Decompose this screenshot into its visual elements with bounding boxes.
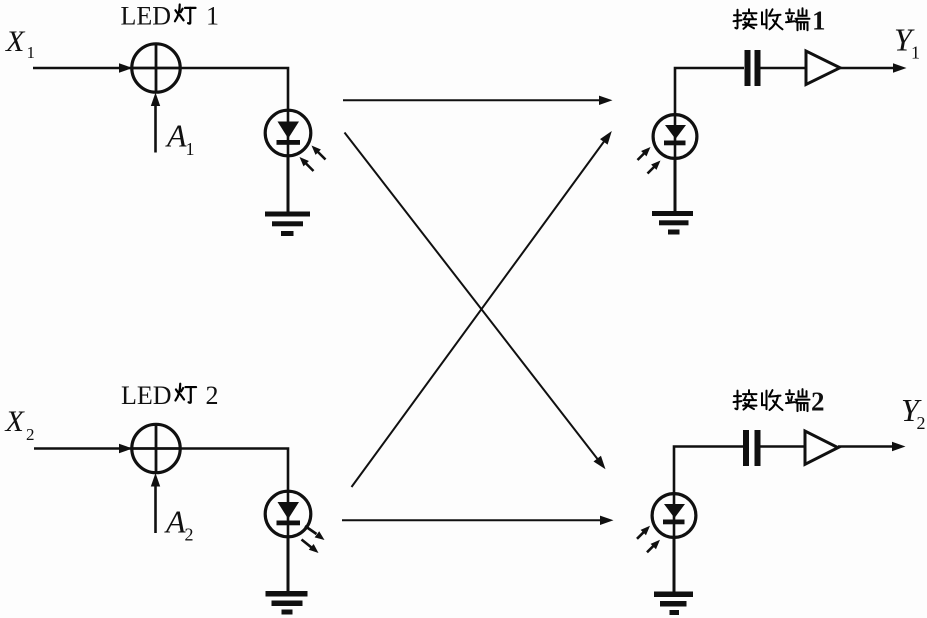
- label A1: [165, 118, 195, 160]
- wire adder2 to LED2: [180, 449, 289, 492]
- label LED灯2: [121, 381, 219, 410]
- svg-text:LED: LED: [121, 2, 172, 31]
- label 接收端2: [734, 386, 825, 416]
- svg-text:X: X: [5, 405, 26, 438]
- LED D1 light arrows: [297, 143, 326, 171]
- node Y2: [901, 392, 926, 433]
- node Y1: [894, 22, 920, 63]
- photodiode PD1 light arrows: [638, 144, 664, 173]
- capacitor C1: [745, 50, 761, 86]
- ground GND4: [654, 592, 693, 616]
- photodiode PD1: [653, 113, 697, 160]
- svg-text:2: 2: [185, 525, 194, 545]
- label A2: [164, 504, 194, 545]
- arrowhead A2 into adder: [151, 473, 160, 487]
- wire amp to Y1 output: [840, 63, 907, 72]
- adder U1 (circle with plus): [132, 44, 180, 92]
- capacitor C2: [743, 430, 761, 466]
- ground GND2: [652, 211, 693, 235]
- svg-text:1: 1: [27, 43, 36, 62]
- adder U3 (circle with plus): [132, 424, 180, 472]
- node X2: [5, 405, 35, 444]
- wire PD1 to RC filter: [675, 68, 744, 113]
- wire PD2 to RC filter: [674, 447, 743, 493]
- ground GND1: [265, 212, 310, 237]
- amplifier U4: [805, 431, 838, 464]
- svg-text:2: 2: [26, 425, 35, 444]
- LED D2: [265, 490, 311, 538]
- wire A2 input: [154, 483, 157, 534]
- arrowhead A1 into adder: [151, 93, 160, 107]
- svg-text:1: 1: [911, 43, 920, 63]
- svg-text:1: 1: [812, 6, 826, 36]
- photodiode PD2: [652, 492, 696, 539]
- wire X1 input: [33, 67, 131, 70]
- wire X2 input: [34, 447, 131, 450]
- wire C1 to amp: [761, 67, 807, 70]
- wire LED1 to ground: [287, 157, 290, 213]
- photodiode PD2 light arrows: [637, 523, 663, 552]
- arrowhead into adder U3: [119, 444, 133, 453]
- svg-text:2: 2: [206, 381, 219, 410]
- wire PD2 to ground: [673, 539, 676, 592]
- arrowhead into adder U1: [119, 63, 133, 72]
- beam LED2 to RX2: [342, 516, 614, 525]
- label LED灯1: [121, 2, 220, 31]
- LED D2 light arrows: [302, 526, 327, 556]
- wire adder1 to LED1: [180, 68, 289, 110]
- LED D1: [265, 109, 311, 157]
- svg-text:X: X: [5, 25, 26, 58]
- svg-text:LED: LED: [121, 381, 172, 410]
- wire A1 input: [154, 102, 157, 153]
- beam LED1 to RX2: [345, 133, 610, 473]
- svg-text:2: 2: [811, 386, 825, 416]
- wire PD1 to ground: [674, 160, 677, 213]
- svg-text:2: 2: [917, 413, 926, 433]
- svg-text:A: A: [165, 118, 187, 154]
- svg-text:1: 1: [206, 2, 219, 31]
- beam LED1 to RX1: [343, 96, 613, 105]
- wire LED2 to ground: [287, 538, 290, 593]
- ground GND3: [266, 591, 308, 615]
- wire amp to Y2 output: [838, 442, 906, 451]
- label 接收端1: [734, 6, 826, 36]
- node X1: [5, 25, 35, 62]
- amplifier U2: [806, 51, 840, 85]
- svg-text:A: A: [164, 504, 186, 540]
- wire C2 to amp: [760, 445, 806, 448]
- beam LED2 to RX1: [352, 128, 616, 487]
- svg-text:1: 1: [186, 139, 195, 159]
